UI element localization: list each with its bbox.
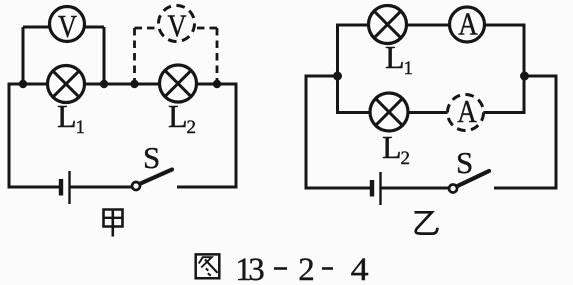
caption TU (Chinese) dot 2: [208, 273, 211, 276]
wire: circuit YI right branch vertical: [523, 25, 526, 113]
caption dash 1: [274, 267, 287, 270]
svg-text:2: 2: [298, 252, 315, 285]
svg-text:S: S: [143, 140, 160, 175]
lamp L2 cross JIA: [165, 70, 191, 96]
battery YI positive plate (long thin): [379, 172, 381, 205]
node dot JIA d (right of L2): [213, 80, 221, 88]
lamp L1 cross YI: [374, 11, 401, 38]
label YI (Chinese) stroke: [415, 212, 438, 233]
wire: circuit YI left outer vertical: [305, 75, 308, 190]
lamp L1 cross JIA: [53, 71, 79, 97]
wire: circuit JIA battery to switch: [71, 186, 133, 189]
label JIA (Chinese) vertical stem: [112, 209, 115, 237]
wire: circuit YI switch to right corner: [494, 187, 558, 190]
caption TU (Chinese) inner stroke 1: [199, 257, 203, 264]
svg-text:L1: L1: [385, 39, 413, 79]
wire: circuit JIA left vertical: [8, 83, 11, 189]
wire: circuit YI right outer horizontal: [524, 75, 556, 78]
svg-text:S: S: [456, 145, 473, 180]
node dot JIA b (right of L1): [100, 80, 108, 88]
svg-text:4: 4: [351, 252, 369, 285]
battery JIA negative plate (short thick): [59, 179, 63, 196]
caption TU (Chinese) box: [196, 254, 220, 278]
voltmeter V body JIA: [50, 7, 85, 42]
lamp L2 cross YI: [376, 99, 403, 126]
caption TU (Chinese) inner stroke 3: [205, 260, 218, 273]
wire: voltmeter loop horizontal JIA: [23, 26, 104, 29]
ammeter A body YI: [450, 7, 485, 42]
lamp L1 body YI: [369, 6, 407, 44]
label JIA (Chinese) box: [104, 210, 123, 227]
switch S JIA pivot: [132, 182, 140, 190]
wire: circuit JIA bottom left segment to battery: [8, 186, 60, 189]
wire: dashed voltmeter left riser JIA: [133, 28, 136, 81]
wire: circuit JIA right vertical: [235, 84, 238, 189]
wire: circuit YI bottom left segment to battery: [305, 187, 371, 190]
wire: voltmeter loop left riser JIA: [22, 27, 25, 84]
wire: circuit YI bottom branch: [336, 111, 526, 114]
wire: circuit YI left branch vertical: [336, 25, 339, 113]
wire: dashed voltmeter right riser JIA: [216, 28, 219, 81]
switch S YI lever: [458, 171, 490, 186]
wire: circuit YI right outer vertical: [555, 75, 558, 190]
battery YI negative plate (short thick): [370, 180, 374, 197]
svg-text:L1: L1: [57, 98, 85, 138]
switch S JIA lever: [141, 170, 173, 184]
caption dash 2: [322, 267, 333, 270]
svg-text:A: A: [458, 5, 478, 41]
wire: circuit YI top branch: [336, 24, 526, 27]
dashed voltmeter body JIA: [159, 6, 195, 42]
node dot YI left junction: [333, 72, 342, 81]
svg-text:L2: L2: [382, 129, 410, 169]
wire: dashed voltmeter horizontal JIA: [135, 27, 218, 30]
lamp L2 body JIA: [160, 65, 197, 102]
caption TU (Chinese) dot 1: [206, 268, 209, 270]
caption TU (Chinese) inner stroke 2: [201, 257, 212, 267]
node dot JIA a (left of L1): [19, 80, 27, 88]
wire: circuit JIA switch to right corner: [177, 186, 238, 189]
svg-text:L2: L2: [168, 98, 196, 138]
node dot YI right junction: [520, 72, 529, 81]
label JIA (Chinese) middle horizontal: [104, 217, 123, 219]
wire: circuit YI left outer horizontal: [306, 75, 338, 78]
lamp L1 body JIA: [48, 66, 85, 103]
node dot JIA c (left of L2): [130, 80, 138, 88]
wire: circuit YI battery to switch: [382, 187, 450, 190]
switch S YI pivot: [449, 185, 457, 193]
dashed ammeter A body YI: [448, 95, 484, 131]
wire: voltmeter loop right riser JIA: [103, 27, 106, 84]
svg-text:3: 3: [248, 252, 265, 285]
svg-text:V: V: [168, 7, 187, 43]
svg-text:V: V: [58, 8, 77, 44]
wire: circuit JIA main horizontal through lamps: [8, 83, 238, 86]
lamp L2 body YI: [370, 93, 408, 131]
svg-text:A: A: [457, 93, 477, 129]
battery JIA positive plate (long thin): [68, 171, 70, 204]
